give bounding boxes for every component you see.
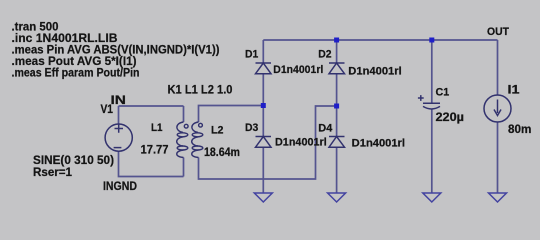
svg-text:L1: L1: [151, 122, 163, 134]
svg-text:K1 L1 L2 1.0: K1 L1 L2 1.0: [168, 83, 233, 97]
svg-text:17.77: 17.77: [141, 145, 169, 157]
svg-text:Rser=1: Rser=1: [33, 167, 73, 179]
svg-text:INGND: INGND: [103, 179, 137, 193]
svg-text:SINE(0 310 50): SINE(0 310 50): [33, 155, 114, 167]
svg-text:D2: D2: [318, 49, 331, 61]
svg-text:I1: I1: [508, 83, 520, 97]
svg-text:.meas Eff param Pout/Pin: .meas Eff param Pout/Pin: [12, 66, 140, 80]
svg-text:D3: D3: [245, 122, 258, 134]
svg-text:D1: D1: [245, 49, 258, 61]
svg-text:80m: 80m: [508, 122, 531, 136]
svg-text:220µ: 220µ: [436, 110, 465, 124]
svg-text:C1: C1: [436, 87, 450, 99]
svg-text:D1n4001rl: D1n4001rl: [348, 66, 401, 78]
svg-text:D4: D4: [318, 123, 333, 135]
svg-text:L2: L2: [211, 125, 224, 137]
svg-text:18.64m: 18.64m: [204, 147, 240, 159]
svg-text:V1: V1: [101, 102, 114, 116]
svg-text:D1n4001rl: D1n4001rl: [273, 64, 323, 76]
svg-text:D1n4001rl: D1n4001rl: [352, 138, 405, 150]
svg-text:D1n4001rl: D1n4001rl: [275, 137, 327, 149]
svg-text:OUT: OUT: [487, 26, 509, 38]
